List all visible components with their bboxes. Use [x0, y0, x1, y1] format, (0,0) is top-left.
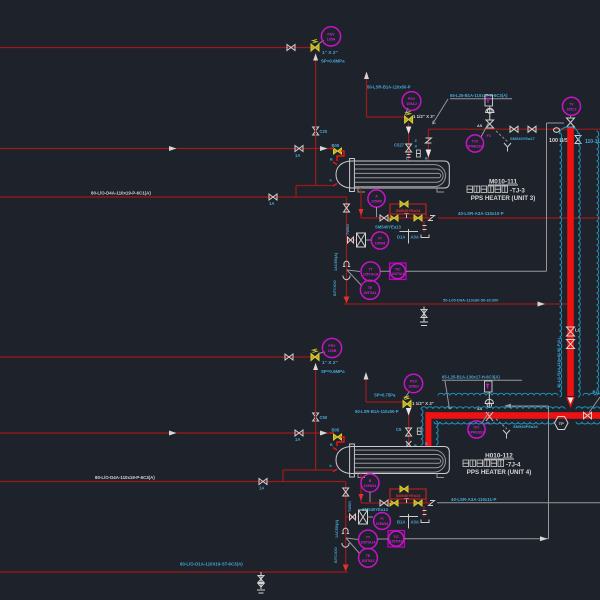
valve on drain riser unit3: [344, 204, 350, 212]
junction leader to TT: [347, 270, 362, 286]
svg-text:PSV: PSV: [328, 344, 336, 348]
bypass loop with tag box: [390, 204, 426, 218]
svg-text:1PRESS2: 1PRESS2: [469, 431, 484, 435]
svg-text:1" X 2": 1" X 2": [322, 50, 338, 56]
drain stub with plug: [423, 221, 425, 232]
valve yellow block1: [390, 500, 398, 506]
svg-text:LC: LC: [575, 328, 582, 333]
flow arrow: [320, 146, 328, 151]
instrument TE bubble unit4: [359, 548, 378, 567]
svg-text:B1A: B1A: [397, 520, 405, 525]
svg-text:1A: 1A: [259, 486, 264, 491]
expansion u symbol: [343, 276, 350, 280]
instrument PSV-105BJ bubble: [404, 374, 423, 399]
valve on drain riser unit4: [343, 488, 349, 496]
jacket wavy horizontal upper right: [583, 393, 600, 395]
nozzle flange left bottom: [333, 184, 337, 187]
expansion omega symbol: [342, 528, 349, 533]
svg-text:105TIA1: 105TIA1: [363, 291, 376, 295]
flow arrow: [320, 431, 328, 436]
jacket wavy below right segment: [576, 422, 600, 424]
nozzle flange left top: [333, 448, 337, 451]
instrument TT bubble: [361, 262, 380, 281]
expansion u symbol: [342, 543, 349, 547]
wire header H4 condensate: [344, 303, 567, 305]
svg-text:105TIA2A: 105TIA2A: [360, 541, 376, 545]
valve on jacket line right: [575, 136, 581, 144]
svg-text:105BJ: 105BJ: [408, 385, 419, 389]
svg-text:FC: FC: [487, 134, 492, 138]
blind symbol2 on thick pipe: [567, 340, 575, 349]
svg-text:PI: PI: [378, 237, 381, 241]
instrument TE bubble below exchanger1: [368, 190, 385, 217]
drain arrow into H8: [343, 565, 349, 572]
svg-text:TIC: TIC: [395, 267, 401, 271]
valve C5 on riser unit4: [406, 428, 412, 436]
svg-text:TP: TP: [559, 421, 564, 426]
wire PSV-105AJ inlet riser: [408, 123, 410, 161]
wire inlet elbow to exchanger1 nozzle: [330, 149, 344, 162]
drain arrow into H4: [344, 297, 350, 304]
valve yellow inlet unit4: [334, 434, 342, 440]
svg-text:1 1/2" X 3": 1 1/2" X 3": [413, 114, 435, 119]
valve C527 on riser: [406, 144, 412, 152]
exchanger supports: [358, 474, 444, 478]
label B2 leader: [589, 397, 600, 413]
valve on thick pipe right: [584, 412, 592, 419]
wire condensate grey continuation: [437, 502, 600, 504]
svg-text:40-LSR-A3A-110x11-P: 40-LSR-A3A-110x11-P: [451, 497, 496, 502]
svg-text:105TIA1: 105TIA1: [391, 272, 404, 276]
vent arrow up: [313, 363, 318, 370]
wire TE drop from exchanger2: [360, 474, 362, 504]
jacket arch over pipe top: [560, 127, 579, 134]
svg-text:B: B: [330, 443, 333, 447]
line break symbol: [429, 501, 435, 506]
svg-text:40-LSR-A3A-110x10-P: 40-LSR-A3A-110x10-P: [458, 211, 504, 216]
svg-text:A3A: A3A: [411, 235, 419, 240]
instrument TIC square bubble: [390, 263, 407, 280]
wire inlet elbow to exchanger2 nozzle: [330, 433, 344, 446]
valve yellow bypass: [400, 201, 408, 207]
svg-text:PSV: PSV: [410, 380, 418, 384]
svg-text:SM540YEa13: SM540YEa13: [396, 208, 421, 213]
wire TE drop from exchanger1: [360, 188, 362, 218]
instrument PI bubble: [366, 232, 389, 249]
bypass loop with tag box: [390, 489, 426, 503]
svg-text:1ACEB(A): 1ACEB(A): [335, 519, 339, 538]
svg-text:105TIA1A: 105TIA1A: [363, 273, 379, 277]
nozzle flange left top: [333, 162, 337, 165]
expansion omega symbol: [343, 261, 350, 266]
relief valve PSV-105BJ: [403, 401, 411, 408]
svg-text:TW6O: TW6O: [346, 224, 350, 235]
svg-text:TE: TE: [366, 554, 371, 558]
jacket wavy far right: [597, 131, 599, 395]
svg-text:ICV: ICV: [474, 426, 480, 430]
valve cross on thick pipe: [486, 412, 493, 421]
valve 1A on H3: [269, 194, 277, 200]
svg-text:SM540YEa13: SM540YEa13: [375, 225, 402, 230]
jacket wavy left of main: [560, 133, 562, 397]
wire header H8 blowdown: [0, 571, 348, 573]
svg-text:50-LSR-B1A-110x50-P: 50-LSR-B1A-110x50-P: [367, 85, 411, 90]
svg-text:80-L/O-D4A-110x19-P-6C1(A): 80-L/O-D4A-110x19-P-6C1(A): [91, 191, 151, 196]
valve on steam line: [510, 126, 518, 132]
vent arrow up: [313, 54, 318, 61]
jacket wavy above thick horizontal: [421, 407, 565, 409]
wire header H6 steam supply unit4: [0, 432, 330, 434]
valve yellow block2: [414, 500, 422, 506]
flow arrow: [169, 146, 177, 151]
tube sheet: [350, 159, 355, 192]
wire condensate line unit3: [361, 217, 600, 219]
signal arrow: [540, 536, 548, 541]
valve on H1: [287, 45, 295, 51]
tube sheet: [350, 444, 355, 477]
jacket wavy above right segment: [576, 407, 600, 409]
thermowell box TW unit4: [346, 516, 358, 518]
instrument TCV bubble: [466, 122, 489, 152]
valve on condensate: [380, 500, 388, 506]
svg-text:AS: AS: [477, 124, 483, 128]
svg-text:50-LSR-B1A-110x50-P: 50-LSR-B1A-110x50-P: [355, 409, 399, 414]
thick steam pipe vertical elbow to exchanger2: [425, 412, 431, 446]
valve on condensate: [380, 215, 388, 221]
wire condensate line unit4: [361, 502, 431, 504]
instrument TT bubble unit4: [359, 530, 378, 549]
jacket wavy below thick horizontal: [434, 422, 554, 424]
thick pipe arrow down: [566, 397, 575, 408]
svg-text:H010-112: H010-112: [485, 453, 513, 460]
svg-text:B: B: [330, 158, 333, 162]
line break symbol: [429, 216, 435, 221]
svg-text:105W6: 105W6: [375, 242, 386, 246]
svg-text:PI: PI: [380, 517, 383, 521]
heat exchanger M010-111 shell: [336, 161, 449, 188]
jacket wavy right of main: [578, 133, 580, 397]
svg-text:PPS HEATER (UNIT 4): PPS HEATER (UNIT 4): [467, 469, 532, 476]
svg-text:100 B/S: 100 B/S: [549, 138, 569, 144]
svg-text:80-L/O-D1A-110X19-ST-6C3(A): 80-L/O-D1A-110X19-ST-6C3(A): [180, 562, 243, 567]
control valve on thick pipe unit4: [485, 381, 493, 392]
flow arrow H4: [538, 302, 546, 307]
valve yellow inlet unit3: [334, 148, 342, 154]
svg-text:PSV: PSV: [408, 97, 416, 101]
svg-text:-TJ-3: -TJ-3: [510, 187, 525, 194]
svg-text:105W14: 105W14: [364, 484, 377, 488]
blind symbol on thick pipe: [567, 327, 575, 336]
valve C20 on PSV riser: [313, 127, 319, 135]
svg-text:1PRESS2: 1PRESS2: [467, 145, 482, 149]
svg-text:B: B: [425, 157, 428, 161]
svg-text:105W8: 105W8: [371, 200, 382, 204]
spectacle blind on riser: [425, 138, 431, 143]
svg-text:X: X: [415, 144, 418, 149]
svg-text:105TIA2: 105TIA2: [390, 540, 403, 544]
svg-text:SM540PEa26: SM540PEa26: [513, 424, 538, 429]
wire PSV-105BJ inlet riser: [408, 408, 410, 447]
wire PSV riser unit3: [315, 53, 317, 186]
jacket wavy horizontal upper: [438, 393, 558, 395]
svg-text:PSV: PSV: [327, 33, 335, 37]
instrument PSV-105AJ bubble: [402, 92, 421, 115]
thick steam pipe horizontal unit4: [425, 412, 600, 419]
instrument TV bubble: [563, 97, 581, 118]
svg-text:1A: 1A: [295, 437, 300, 442]
svg-text:50-L05-D9A-110x80-50-6C300: 50-L05-D9A-110x80-50-6C300: [443, 298, 499, 303]
svg-text:105W16: 105W16: [376, 522, 389, 526]
svg-text:1A: 1A: [295, 153, 300, 158]
drain valve assembly on H8: [257, 572, 265, 593]
tube bundle: [355, 450, 446, 472]
relief valve PSV-105B: [311, 354, 319, 361]
vent tick on condensate: [404, 499, 408, 504]
heat exchanger H010-112 shell: [336, 447, 449, 474]
exchanger supports: [358, 188, 444, 192]
svg-text:C50: C50: [320, 415, 328, 420]
svg-text:C527: C527: [394, 143, 405, 148]
drain stub with plug: [423, 506, 425, 517]
steam trap hexagon: [555, 417, 569, 430]
valve on H5: [285, 354, 293, 360]
svg-text:C20: C20: [320, 129, 328, 134]
svg-text:SP=0.6MPa: SP=0.6MPa: [321, 59, 345, 64]
svg-text:105C2: 105C2: [567, 107, 577, 111]
vent oval at pipe top: [554, 128, 560, 133]
signal wire TT to TIC to TV: [380, 123, 564, 271]
flow arrow: [169, 431, 177, 436]
vent tick on condensate: [404, 214, 408, 219]
valve 1A on H2: [295, 146, 303, 152]
svg-text:1 1/2" X 3": 1 1/2" X 3": [412, 401, 434, 406]
signal dashed to interlock unit4: [496, 419, 507, 429]
wire PSV riser unit4: [315, 363, 317, 470]
nozzle flange left bottom: [333, 469, 337, 472]
svg-text:1A: 1A: [269, 201, 274, 206]
wire PSV-105AJ discharge: [367, 79, 405, 117]
wire header H7 oil outlet unit4: [0, 470, 346, 566]
svg-text:105AJ: 105AJ: [406, 102, 417, 106]
svg-text:SP=0.6MPa: SP=0.6MPa: [321, 369, 345, 374]
svg-text:M010-111: M010-111: [489, 179, 518, 186]
valve small at shell: [406, 441, 412, 447]
jacket wavy right of elbow: [436, 421, 438, 445]
tube bundle: [355, 165, 446, 187]
svg-text:B05: B05: [332, 143, 340, 148]
svg-text:SM540YEa27: SM540YEa27: [510, 136, 535, 141]
signal dashed to interlock: [496, 131, 508, 142]
relief valve PSV-105A: [311, 44, 319, 51]
wire PSV-105BJ discharge: [366, 380, 403, 403]
svg-text:40-LS-R1A-110x40-50-P(A): 40-LS-R1A-110x40-50-P(A): [556, 337, 561, 388]
instrument PI bubble unit4: [368, 513, 391, 530]
flow chevron on thick elbow: [426, 433, 431, 441]
relief valve PSV-105AJ: [405, 116, 413, 123]
junction leader to TT unit4: [346, 538, 360, 554]
vent arrow up PSV-105AJ: [364, 72, 369, 80]
svg-text:B: B: [414, 443, 417, 448]
instrument PSV-105B bubble: [318, 338, 342, 357]
svg-text:105A: 105A: [327, 38, 336, 42]
wire header H1 flare line: [0, 47, 311, 49]
instrument ICV bubble: [468, 412, 489, 438]
thick steam main vertical: [567, 127, 574, 396]
svg-text:SP=0.75Pa: SP=0.75Pa: [374, 393, 396, 398]
svg-text:TE: TE: [368, 286, 373, 290]
svg-text:B/TC/OO: B/TC/OO: [333, 280, 337, 296]
svg-text:D1A: D1A: [397, 235, 405, 240]
signal wire TT to TIC to valve unit4: [377, 406, 548, 539]
drain valve assembly on H4: [420, 307, 428, 326]
flow arrow down on riser: [406, 127, 411, 135]
drip marks below valve: [407, 155, 411, 158]
svg-text:65-L25-B1A-130x17-H-6C3(A): 65-L25-B1A-130x17-H-6C3(A): [442, 375, 500, 380]
flow arrow down on steam riser: [426, 150, 432, 158]
flow arrow down on riser: [406, 408, 411, 416]
svg-text:80-L/O-D4A-110x19-P-6C3(A): 80-L/O-D4A-110x19-P-6C3(A): [95, 475, 155, 480]
flow arrow down: [359, 494, 364, 501]
actuator fail symbol: [503, 430, 510, 439]
svg-text:SM540YEa14: SM540YEa14: [396, 493, 421, 498]
svg-text:TV: TV: [569, 102, 574, 106]
jacket wavy left of elbow: [421, 409, 423, 445]
valve on steam line: [528, 126, 536, 132]
svg-text:65-L25-B1A-110x27-H-6C3(A): 65-L25-B1A-110x27-H-6C3(A): [450, 93, 508, 98]
svg-text:B: B: [425, 442, 428, 446]
wire header H5 flare line unit4: [0, 356, 311, 358]
valve yellow block1: [390, 215, 398, 221]
wire header H3 oil outlet unit3: [0, 186, 347, 304]
svg-text:B05: B05: [332, 428, 340, 433]
valve under TV: [567, 118, 575, 127]
svg-text:A3A: A3A: [411, 520, 419, 525]
valve yellow bypass: [400, 486, 408, 492]
valve C5 on PSV riser unit4: [313, 413, 319, 421]
svg-text:B/TC/OO: B/TC/OO: [334, 547, 338, 563]
instrument TE bubble: [360, 280, 379, 299]
wire header H2 steam supply unit3: [0, 148, 330, 150]
vent arrow up PSV-105BJ: [364, 372, 369, 380]
svg-text:105TIA2: 105TIA2: [361, 559, 374, 563]
thermowell box TW: [347, 239, 357, 241]
actuator fail symbol: [504, 143, 511, 152]
instrument TIC square bubble unit4: [388, 531, 405, 548]
instrument TE bubble below exchanger2: [361, 474, 379, 502]
svg-text:-7J-4: -7J-4: [506, 461, 521, 468]
svg-text:TW6O: TW6O: [348, 501, 352, 512]
svg-text:1" X 2": 1" X 2": [322, 360, 338, 366]
node marks column: [417, 428, 421, 435]
valve 1A on H6: [295, 430, 303, 436]
svg-text:105B: 105B: [328, 349, 337, 353]
flow arrow down: [359, 209, 364, 216]
svg-text:PPS HEATER (UNIT 3): PPS HEATER (UNIT 3): [471, 195, 536, 202]
svg-text:TCV: TCV: [472, 140, 480, 144]
svg-text:C5: C5: [396, 427, 402, 432]
instrument PSV-105A bubble: [318, 27, 341, 46]
wire steam inlet line unit3: [428, 129, 600, 161]
svg-text:1ACEB(A): 1ACEB(A): [334, 252, 338, 271]
control valve TCV unit3: [485, 95, 493, 106]
valve 1A on H7: [259, 479, 267, 485]
valve yellow block2: [414, 215, 422, 221]
svg-text:TIC: TIC: [393, 535, 399, 539]
